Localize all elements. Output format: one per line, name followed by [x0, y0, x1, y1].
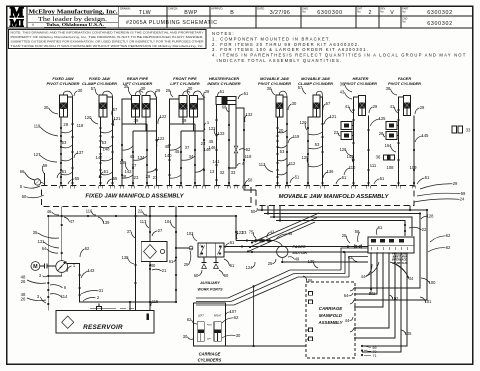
cylinder movable jaw pivot [276, 95, 283, 117]
pressure and return interface manifold [368, 237, 414, 265]
label MOVABLE JAW PIVOT CYLINDER [258, 76, 291, 86]
hose arcs cylinder tops [63, 91, 322, 99]
item 62 carriage right [222, 315, 239, 323]
svg-text:29: 29 [205, 89, 210, 94]
wire facer pivot right [413, 116, 415, 186]
svg-text:62: 62 [187, 317, 192, 322]
svg-text:30: 30 [292, 101, 297, 106]
item 38 facer [386, 86, 397, 95]
wire carriage bottom link [225, 345, 306, 347]
svg-text:29: 29 [63, 122, 68, 127]
item 148 [102, 147, 110, 152]
item 103 [187, 231, 197, 241]
item 120 movable [300, 120, 308, 130]
item 29 front a [166, 88, 173, 97]
svg-text:APPRV'D:: APPRV'D: [211, 7, 223, 11]
svg-text:LEFT: LEFT [198, 315, 204, 318]
svg-text:No:: No: [380, 10, 384, 13]
wire front lift crossover [170, 117, 205, 186]
svg-text:119: 119 [293, 134, 300, 139]
svg-text:122: 122 [158, 136, 166, 141]
svg-text:53: 53 [62, 140, 67, 145]
title block grid [7, 6, 473, 28]
svg-text:58: 58 [355, 229, 360, 234]
svg-text:38: 38 [386, 86, 391, 91]
svg-text:30: 30 [78, 88, 83, 93]
cylinder front pipe lift A [179, 96, 187, 118]
pump [56, 261, 68, 273]
svg-text:31: 31 [99, 288, 104, 293]
svg-text:2. FOR ITEMS 20 THRU 99 ORDER: 2. FOR ITEMS 20 THRU 99 ORDER KIT A63003… [212, 42, 361, 47]
svg-text:6300302: 6300302 [427, 10, 453, 16]
cylinder heater pivot [359, 96, 366, 116]
svg-text:55: 55 [113, 176, 118, 181]
wire pump riser [61, 207, 63, 261]
item 41 heater [345, 104, 353, 113]
flow control valves item 23 heater [341, 122, 354, 140]
svg-text:119: 119 [34, 124, 41, 129]
item 30 rear [140, 86, 146, 95]
item 25 interface [342, 233, 350, 243]
item 123 [237, 230, 245, 239]
item 23 heater label [334, 130, 340, 136]
label HEATER PIVOT CYLINDER [344, 76, 377, 86]
svg-text:141: 141 [212, 159, 220, 164]
item 1 front [204, 120, 210, 130]
reservoir [56, 304, 154, 334]
arc bridge 53 [61, 130, 73, 175]
svg-text:51: 51 [342, 175, 347, 180]
item 139 [98, 217, 110, 225]
title #2065A PLUMBING SCHEMATIC [126, 20, 218, 26]
field APPRVD B [211, 7, 234, 16]
svg-text:TLW: TLW [139, 10, 151, 16]
item 29 heater [369, 104, 378, 113]
svg-text:121: 121 [114, 116, 122, 121]
wire bus L1 [258, 209, 428, 300]
svg-text:3. FOR ITEMS 100 & LARGER ORDE: 3. FOR ITEMS 100 & LARGER ORDER KIT A630… [212, 47, 369, 52]
svg-text:103: 103 [187, 231, 195, 236]
aux valve block item 58 [198, 243, 224, 257]
items 51 55 fixed ports [57, 169, 118, 184]
item 29 rear [155, 88, 161, 98]
wire bus stubs from manifold [262, 206, 411, 222]
manifold port ticks [59, 185, 415, 189]
item 101 [420, 297, 432, 304]
svg-text:LIFT CYLINDER: LIFT CYLINDER [170, 81, 200, 86]
svg-text:3/27/96: 3/27/96 [270, 10, 290, 16]
svg-text:BWP: BWP [184, 10, 198, 16]
svg-text:INDEX CYLINDER: INDEX CYLINDER [207, 81, 240, 86]
svg-text:29: 29 [373, 104, 378, 109]
svg-text:B: B [230, 10, 234, 16]
wire aux to interface b [224, 251, 368, 253]
item 61 interface [377, 225, 383, 235]
solenoid circle item 25 [189, 246, 193, 250]
item 51 movable a [290, 175, 300, 184]
svg-text:ASSEMBLY: ASSEMBLY [317, 320, 343, 325]
notes list [212, 31, 467, 63]
svg-text:111: 111 [370, 163, 377, 168]
svg-text:20: 20 [279, 128, 284, 133]
svg-text:53: 53 [102, 140, 107, 145]
item 110 [344, 165, 356, 175]
svg-text:CARRIAGE: CARRIAGE [319, 306, 343, 311]
svg-text:37: 37 [185, 145, 190, 150]
item 31 [81, 288, 104, 294]
svg-text:WORK PORTS: WORK PORTS [197, 288, 223, 292]
item 30 carriage right [222, 333, 241, 338]
svg-text:CLAMP CYLINDER: CLAMP CYLINDER [82, 81, 117, 86]
items 48 26 b [21, 292, 46, 302]
label REAR PIPE LIFT CYLINDER [123, 76, 153, 86]
item 39 rear [134, 118, 139, 123]
arc bridges movable clamp [308, 132, 323, 167]
item 35 left [33, 230, 59, 238]
svg-text:MOVABLE JAW MANIFOLD ASSEMBLY: MOVABLE JAW MANIFOLD ASSEMBLY [279, 194, 390, 200]
svg-text:63: 63 [348, 255, 353, 260]
item 64 carriage [344, 293, 353, 298]
svg-text:64: 64 [344, 293, 349, 298]
proprietary note box [9, 30, 207, 49]
wire movable pivot cap port [283, 97, 288, 186]
svg-text:110: 110 [349, 165, 356, 170]
arc bridges clamp [101, 130, 113, 175]
aux work ports [202, 257, 219, 268]
item 51 index right [238, 91, 249, 99]
item 43 heater [340, 90, 352, 100]
item 30 hose top [74, 88, 83, 96]
label FIXED JAW CLAMP CYLINDER [82, 76, 117, 86]
svg-text:122: 122 [209, 126, 217, 131]
svg-text:PROPERTY OF McElroy Manufactur: PROPERTY OF McElroy Manufacturing, Inc. … [11, 35, 204, 39]
svg-text:PIVOT CYLINDER: PIVOT CYLINDER [258, 81, 291, 86]
field CAD No 6300302 [402, 18, 452, 27]
svg-text:59: 59 [461, 191, 466, 196]
item 131 left [38, 239, 59, 248]
item 25 mid [268, 259, 276, 266]
items 111 108 109 [370, 163, 417, 170]
wire front lift right [198, 99, 206, 186]
svg-text:114: 114 [61, 294, 68, 299]
McElroy logo [10, 5, 24, 30]
item 126 heater [340, 147, 352, 156]
svg-text:AUXILIARY: AUXILIARY [199, 281, 220, 285]
wire drop aux line [175, 207, 189, 303]
label carriage cylinders [198, 352, 222, 363]
item 30 movable pivot right [288, 101, 297, 110]
item 53 movable clamp [315, 142, 320, 147]
item 107 [225, 309, 237, 316]
svg-text:23: 23 [242, 230, 247, 235]
svg-text:51: 51 [380, 176, 385, 181]
item 137 [74, 150, 84, 158]
svg-text:121: 121 [330, 114, 338, 119]
movable jaw manifold assembly box [256, 186, 414, 206]
svg-text:6300300: 6300300 [317, 10, 343, 16]
filter assembly [141, 242, 167, 262]
svg-text:33: 33 [466, 128, 471, 133]
svg-text:29: 29 [453, 181, 458, 186]
svg-text:60: 60 [194, 273, 199, 278]
item 37 drop [127, 229, 135, 238]
items 60 60 [194, 270, 229, 278]
svg-text:38: 38 [340, 82, 345, 87]
item 57 top [91, 86, 98, 95]
item 147 [95, 155, 103, 160]
wire movable clamp cap port [320, 97, 324, 186]
carriage cylinder right [214, 322, 221, 342]
field DWG No 6300300 [302, 8, 342, 16]
item 100 [421, 278, 436, 285]
wire interface col 2 [355, 253, 377, 294]
svg-text:62: 62 [446, 245, 451, 250]
svg-text:118: 118 [245, 154, 252, 159]
svg-text:27: 27 [158, 228, 163, 233]
cylinder front pipe lift B [190, 96, 198, 118]
svg-text:13: 13 [210, 169, 215, 174]
wire bus L2 [264, 212, 421, 288]
svg-text:51: 51 [220, 89, 225, 94]
svg-text:125: 125 [379, 116, 387, 121]
carriage manifold right ports [350, 287, 356, 339]
carriage cylinder left [197, 322, 204, 342]
item 35 rear [124, 84, 131, 95]
svg-text:42: 42 [270, 230, 275, 235]
item 29 [63, 122, 68, 127]
wire pump out right [67, 264, 177, 311]
wire bus L3 [270, 217, 412, 236]
cylinder fixed jaw pivot [60, 95, 68, 117]
svg-text:61: 61 [230, 240, 235, 245]
svg-text:RESERVOIR: RESERVOIR [83, 324, 123, 331]
item 130 [308, 259, 318, 268]
item 138 [122, 255, 134, 264]
svg-text:2: 2 [369, 10, 372, 16]
item 61 aux bottom [224, 259, 235, 268]
item 120 [85, 115, 98, 124]
item 53 movable [280, 149, 285, 154]
svg-text:DATE:: DATE: [257, 7, 265, 11]
svg-text:61: 61 [169, 259, 174, 264]
company name block [28, 9, 118, 28]
cylinder rear pipe lift B [142, 96, 150, 118]
wire return bus [47, 215, 236, 217]
svg-text:THAN THOSE FOR WHICH IT WAS FU: THAN THOSE FOR WHICH IT WAS FURNISHED WI… [11, 44, 204, 48]
svg-text:49: 49 [288, 231, 293, 236]
svg-text:50: 50 [251, 209, 256, 214]
item 146 index [208, 145, 216, 150]
svg-text:23: 23 [153, 175, 158, 180]
item 115 [151, 299, 159, 306]
items 45 37 23 146 140 34 cluster [164, 141, 211, 159]
flow control valves item 28 facer [386, 122, 399, 140]
field SHT No 2 [357, 8, 371, 16]
svg-text:44: 44 [345, 318, 350, 323]
svg-text:133: 133 [218, 131, 226, 136]
item 38 heater [340, 82, 352, 93]
items 45 134 37 142 28 23 cluster [122, 154, 158, 180]
item 30 movable pivot left [267, 86, 275, 95]
item 121 movable [324, 114, 337, 124]
motor M [31, 262, 45, 271]
item 68 [222, 105, 229, 113]
wire index right with check valve [229, 105, 238, 169]
wire bundle drop [253, 285, 255, 346]
item 102 a [369, 289, 377, 296]
svg-text:40: 40 [151, 263, 156, 268]
item 44 right [390, 262, 414, 281]
svg-text:26: 26 [21, 297, 26, 302]
item 102 b [389, 295, 399, 301]
wire index mid port [228, 105, 230, 186]
item 128 [421, 214, 434, 220]
item 59 gauge [34, 163, 48, 186]
wire index far right to movable manifold [236, 108, 256, 190]
wire fixed jaw pivot rod port [60, 117, 62, 186]
valve row [235, 215, 282, 246]
svg-text:71: 71 [373, 354, 377, 358]
wire interface col 3 [355, 253, 383, 307]
item 28 facer label [379, 131, 385, 137]
svg-text:6300302: 6300302 [427, 21, 453, 27]
item 3 a [39, 273, 47, 278]
svg-text:147: 147 [95, 155, 103, 160]
wire bus L4 [276, 221, 406, 237]
svg-text:55: 55 [75, 176, 80, 181]
svg-text:50: 50 [248, 178, 253, 183]
svg-text:137: 137 [77, 150, 85, 155]
item 106 [303, 276, 313, 283]
items 69 70 71 [361, 345, 377, 358]
item 104 [165, 219, 175, 228]
wire interface col 5 [355, 253, 395, 338]
item 22 right [409, 227, 427, 232]
svg-text:108: 108 [386, 165, 394, 170]
svg-text:122: 122 [160, 114, 168, 119]
svg-text:DRAWN:: DRAWN: [120, 7, 131, 11]
svg-text:No:: No: [402, 20, 406, 23]
svg-text:115: 115 [152, 299, 159, 304]
field REV No V [380, 8, 394, 16]
item 64 left [42, 246, 58, 253]
svg-text:37: 37 [132, 163, 137, 168]
wire interface col 6 [362, 253, 401, 352]
svg-text:No:: No: [357, 10, 361, 13]
svg-text:CARRIAGE: CARRIAGE [199, 352, 221, 357]
svg-text:43: 43 [340, 90, 345, 95]
cylinder movable jaw clamp [313, 95, 320, 117]
carriage manifold assembly box [306, 282, 355, 358]
svg-text:145: 145 [422, 133, 430, 138]
labels left right fwd aft [198, 315, 222, 341]
svg-text:41: 41 [345, 104, 350, 109]
item 57 movable a [298, 85, 306, 94]
item 30 hose left [44, 105, 58, 114]
svg-text:51: 51 [62, 169, 67, 174]
item 144 heater [347, 154, 355, 163]
item 44 carriage [345, 317, 353, 323]
label FACER PIVOT CYLINDER [388, 76, 421, 86]
svg-text:135: 135 [120, 160, 128, 165]
svg-text:30: 30 [188, 86, 193, 91]
svg-text:60: 60 [224, 273, 229, 278]
item 3 b [37, 294, 46, 303]
item 119 movable [288, 134, 300, 143]
svg-text:66: 66 [20, 169, 25, 174]
item 41 facer [390, 104, 398, 113]
item 57 right [112, 107, 118, 117]
item 46 [47, 209, 59, 215]
item 121 [113, 116, 121, 126]
svg-text:127: 127 [34, 152, 42, 157]
svg-text:28: 28 [146, 174, 151, 179]
item 117 [140, 219, 149, 228]
svg-text:57: 57 [298, 85, 303, 90]
svg-text:PIVOT CYLINDER: PIVOT CYLINDER [344, 81, 377, 86]
svg-text:44: 44 [409, 276, 414, 281]
item 25 label [184, 251, 191, 267]
item 49 motor [288, 257, 300, 262]
item 66 [20, 169, 35, 180]
svg-text:29: 29 [156, 88, 161, 93]
svg-text:39: 39 [182, 118, 187, 123]
wire fixed jaw clamp rod port [99, 117, 101, 186]
label auxiliary work ports [197, 281, 223, 292]
svg-text:CYLINDERS: CYLINDERS [198, 358, 222, 363]
item 62 pump [80, 246, 90, 257]
items 48 26 a [21, 275, 46, 285]
item 1 pump [67, 263, 76, 272]
item 133 [217, 131, 226, 140]
svg-text:25: 25 [268, 261, 273, 266]
svg-text:129: 129 [302, 155, 310, 160]
item 122 index [209, 126, 217, 135]
arc bridges movable pivot [278, 130, 288, 175]
svg-text:FWD: FWD [207, 325, 212, 327]
svg-text:57: 57 [113, 107, 118, 112]
svg-text:#2065A PLUMBING SCHEMATIC: #2065A PLUMBING SCHEMATIC [126, 20, 218, 26]
diagonal hose bundle B [196, 248, 368, 305]
item 30 carriage left [183, 334, 193, 339]
svg-text:62: 62 [446, 233, 451, 238]
svg-text:SUBMITTED OUTSIDE PARTIES FOR: SUBMITTED OUTSIDE PARTIES FOR EXAMINATIO… [11, 39, 204, 43]
svg-text:30: 30 [267, 86, 272, 91]
svg-text:30: 30 [44, 105, 49, 110]
svg-text:57: 57 [326, 101, 331, 106]
item 51 heater [374, 176, 385, 184]
wire heater pivot right [367, 116, 369, 186]
wire drop 135 [134, 207, 136, 311]
item 127 [34, 152, 57, 162]
field DATE 3/27/96 [257, 7, 290, 16]
svg-text:64: 64 [42, 246, 47, 251]
field PART No 6300302 [402, 8, 452, 16]
svg-text:26: 26 [21, 279, 26, 284]
svg-text:53: 53 [280, 149, 285, 154]
item 116 [86, 209, 96, 216]
svg-text:143: 143 [88, 268, 96, 273]
label facer motor [293, 244, 308, 255]
svg-text:136: 136 [327, 169, 335, 174]
items 23 75 42 49 valve row labels [242, 230, 293, 240]
item 141 index [212, 159, 220, 164]
valve 58 bowtie [355, 229, 362, 248]
item 51 movable b [336, 175, 347, 184]
item 50 fixed [22, 194, 44, 199]
svg-text:35: 35 [33, 230, 38, 235]
svg-text:62: 62 [234, 315, 239, 320]
